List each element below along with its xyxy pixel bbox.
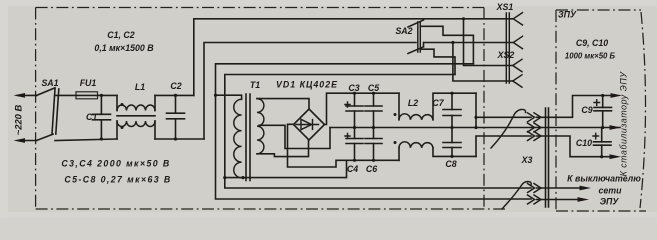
bus wire 4 (tap to SA2) <box>223 75 531 189</box>
capacitor C4 <box>345 128 363 175</box>
X3 wires to ZPU pin3 <box>537 136 622 159</box>
bridge rectifier VD1 <box>276 80 338 141</box>
T1 secondary bottom lead (AC2) <box>257 140 309 156</box>
label to stabilizer (rotated) <box>619 71 629 177</box>
bridge DC+ lead to top rail <box>325 93 400 124</box>
capacitor C3 <box>345 83 363 129</box>
T1 secondary center tap lead <box>259 125 330 148</box>
transformer T1 primary feed wires <box>216 95 347 179</box>
wire bottom rail left <box>55 139 204 141</box>
middle rail (0V) <box>330 127 620 129</box>
wire top L1 to corner <box>155 94 194 96</box>
label to mains switch <box>567 174 641 207</box>
connector X3 chevrons pin4 <box>528 184 542 193</box>
bus wire 1 (L to SA2/XS) <box>194 19 514 96</box>
X3 wire pin2 continuation with arrow <box>610 125 622 130</box>
X3 bottom pair wires to mains switch <box>537 186 592 202</box>
wire top after fuse <box>98 94 118 96</box>
label C9 C10 values <box>565 38 616 61</box>
connector X3 chevrons pin1 <box>528 113 542 122</box>
switch SA1 <box>37 78 59 141</box>
arrow to stabilizer 1 <box>611 93 623 98</box>
wire L top <box>55 94 76 96</box>
wire X3 pin3 (-) <box>476 136 531 156</box>
capacitor C10 <box>576 128 611 159</box>
connector X3 chevrons pin5 <box>528 195 542 204</box>
capacitor C9 <box>581 94 611 129</box>
fuse FU1 <box>76 78 98 99</box>
choke L1 (common-mode) <box>117 82 155 139</box>
cable slash mark group 1 <box>491 109 526 148</box>
mains input arrows ~220V <box>13 93 37 143</box>
transformer T1 <box>234 80 264 181</box>
connector X3 chevrons pin3 <box>528 132 542 141</box>
label ZPU <box>558 10 577 20</box>
bus wire 2 (N up to SA2) <box>204 43 416 140</box>
cable slash mark group 2 <box>502 182 531 210</box>
capacitor C2 <box>167 81 185 141</box>
socket XS2 <box>497 50 522 87</box>
socket XS1 <box>496 2 523 49</box>
choke L2 (common-mode) <box>394 93 477 160</box>
wire SA2 pole2 to XS sockets <box>424 41 513 81</box>
label C1,C2 values <box>94 30 154 53</box>
wire X3 pin1 (+) <box>474 93 531 129</box>
connector X3 chevrons pin2 <box>528 123 542 132</box>
capacitor C8 <box>443 128 461 170</box>
bus wire 3 (tap to SA2) <box>214 64 531 199</box>
unit boundary (dash-dot frame of power supply) <box>36 8 505 210</box>
capacitor C7 <box>432 92 461 130</box>
wire bus1 branch to XS2 <box>462 17 513 65</box>
label C3..C8 values <box>61 159 171 185</box>
socket interface double lines <box>506 13 509 83</box>
switch SA2 <box>395 20 473 75</box>
bridge DC- lead to bottom rail <box>288 124 400 167</box>
ZPU unit boundary (dash-dot box right) <box>556 10 646 211</box>
connector X3 mating line <box>521 108 549 207</box>
capacitor C1 <box>86 94 111 141</box>
T1 secondary top lead (AC1) <box>257 99 309 110</box>
capacitor C5 <box>365 83 382 129</box>
X3 wires to ZPU pin1 <box>537 96 615 118</box>
capacitor C6 <box>365 128 382 175</box>
